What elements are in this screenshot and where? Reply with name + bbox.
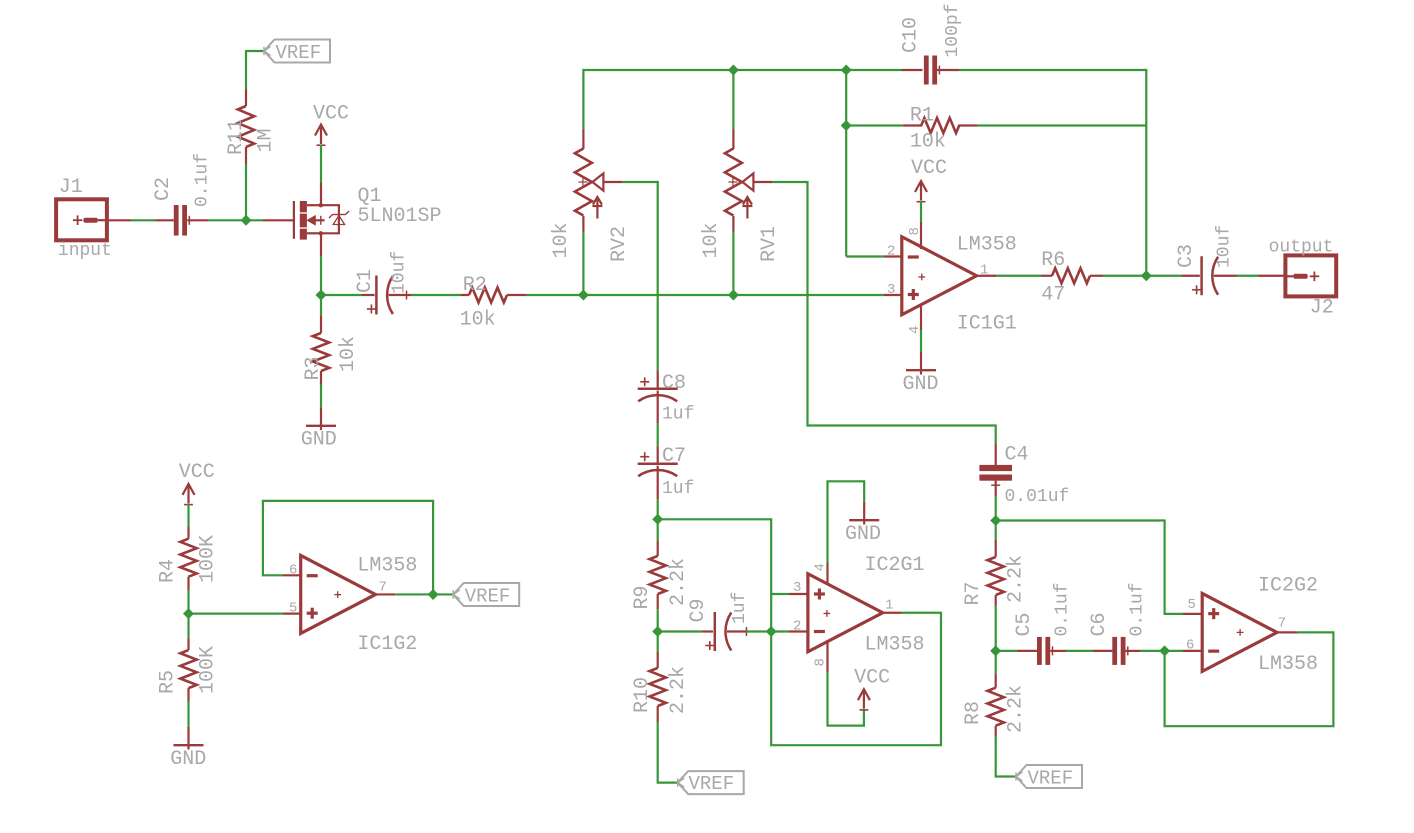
label C2 <box>152 177 175 201</box>
pin R5 top <box>187 639 189 651</box>
resistor R11 <box>238 106 254 147</box>
pin number 3 <box>887 282 895 298</box>
label 100K R4 <box>197 535 220 583</box>
flag VREF left <box>453 583 519 606</box>
pin RV1 top <box>732 129 734 149</box>
pin R7 bottom <box>995 595 997 606</box>
svg-text:J1: J1 <box>59 176 83 199</box>
ground GND R3 <box>306 426 336 430</box>
label 0.1uf C6 <box>1128 582 1148 636</box>
label R5 <box>157 670 180 694</box>
svg-text:C1: C1 <box>354 269 377 293</box>
svg-text:LM358: LM358 <box>357 554 417 577</box>
pin R3 top <box>320 315 322 333</box>
svg-text:2.2k: 2.2k <box>1005 685 1028 733</box>
label LM358 IC2G1 <box>865 634 925 657</box>
label R2 <box>463 274 487 297</box>
svg-text:LM358: LM358 <box>957 234 1017 257</box>
label 1M <box>255 128 278 152</box>
wire pin1 to R6 <box>996 275 1041 277</box>
wire node to C5 <box>996 650 1018 652</box>
pin C5 left <box>1018 650 1038 652</box>
capacitor C8 <box>638 377 678 401</box>
svg-text:IC2G2: IC2G2 <box>1258 575 1318 598</box>
pin number 5 IC1G2 <box>289 601 297 617</box>
pin R6 left <box>1041 275 1052 277</box>
junction C6 pin6 node <box>1160 646 1170 656</box>
pin C2 right <box>187 219 208 221</box>
pin J2 <box>1258 275 1286 277</box>
svg-text:VREF: VREF <box>465 586 511 608</box>
label output <box>1269 238 1334 258</box>
pin number 7 IC1G2 <box>379 580 387 596</box>
label 2.2k R10 <box>667 666 690 714</box>
wire node to IC2G1 pin3 <box>658 519 772 631</box>
wire VCC to pin8 <box>920 201 922 222</box>
pin C3 right <box>1214 275 1237 277</box>
svg-text:1uf: 1uf <box>662 479 694 499</box>
wire RV1 top <box>732 70 734 129</box>
pin C6 right <box>1126 650 1141 652</box>
pin R1 left <box>903 124 922 126</box>
label R3 <box>302 356 325 380</box>
pin C2 left <box>155 219 174 221</box>
label VREF left <box>465 586 511 608</box>
wire node to pin5 <box>189 612 284 614</box>
svg-text:0.1uf: 0.1uf <box>1053 582 1073 636</box>
svg-text:47: 47 <box>1041 284 1065 307</box>
svg-text:R6: R6 <box>1041 249 1065 272</box>
label 1uf C8 <box>662 405 694 425</box>
wire R5 to GND <box>187 701 189 727</box>
pin R4 top <box>187 527 189 539</box>
label 1uf C7 <box>662 479 694 499</box>
svg-text:R5: R5 <box>157 670 180 694</box>
transistor Q1 5LN01SP <box>294 201 349 240</box>
wire C8 to C7 <box>657 423 659 446</box>
wire R8 to VREF <box>996 737 1016 777</box>
label LM358 IC1G1 <box>957 234 1017 257</box>
pin R9 top <box>657 541 659 556</box>
label LM358 IC2G2 <box>1258 653 1318 676</box>
op-amp IC1G1 LM358 <box>902 237 977 315</box>
svg-text:VCC: VCC <box>854 667 890 690</box>
wire R2 to opamp pin3 <box>526 294 884 296</box>
pin GND R3 <box>320 408 322 426</box>
pin RV2 top <box>582 129 584 149</box>
capacitor C7 <box>638 452 678 476</box>
junction R4 R5 node <box>184 609 194 619</box>
label C5 <box>1013 612 1036 636</box>
wire IC2G2 feedback <box>1165 632 1334 726</box>
potentiometer RV1 <box>725 149 773 219</box>
label C4 <box>1005 444 1029 467</box>
svg-text:10k: 10k <box>700 222 723 258</box>
pin number 8 <box>907 227 923 235</box>
pin C7 bottom <box>657 466 659 500</box>
svg-text:100K: 100K <box>197 535 220 583</box>
pin Q1 gate <box>263 219 294 221</box>
capacitor C9 <box>705 612 731 651</box>
op-amp IC2G2 LM358 <box>1202 593 1277 671</box>
svg-text:R10: R10 <box>631 677 654 713</box>
label 10uf C3 <box>1215 225 1235 268</box>
wire pin4 to GND IC2G1 <box>828 481 865 563</box>
pin IC2G2 6 <box>1183 650 1202 652</box>
svg-text:C4: C4 <box>1005 444 1029 467</box>
pin RV1 bottom <box>732 216 734 232</box>
svg-text:GND: GND <box>845 523 881 546</box>
connector J2 (output) <box>1285 255 1336 296</box>
capacitor C1 <box>367 276 393 315</box>
label C3 <box>1175 244 1198 268</box>
junction RV2 bottom <box>579 290 589 300</box>
svg-text:R11: R11 <box>225 119 248 155</box>
junction RV1 bottom <box>729 290 739 300</box>
wire C1 to R2 <box>411 294 461 296</box>
svg-text:3: 3 <box>793 580 801 596</box>
wire R3 to GND <box>320 385 322 408</box>
label 10k RV2 <box>550 222 573 258</box>
svg-text:1M: 1M <box>255 128 278 152</box>
capacitor C5 <box>1037 637 1053 665</box>
pin C4 top <box>995 443 997 465</box>
label GND R3 <box>301 429 337 452</box>
pin IC1G2 6 <box>283 574 301 576</box>
pin C10 right <box>937 69 959 71</box>
pin IC1G1 1 <box>977 275 996 277</box>
svg-text:100pf: 100pf <box>943 3 963 57</box>
wire IC1G2 feedback <box>263 501 433 595</box>
capacitor C6 <box>1112 637 1128 665</box>
svg-text:RV2: RV2 <box>608 226 631 262</box>
label VREF middle <box>689 773 735 795</box>
pin C5 right <box>1050 650 1066 652</box>
resistor R7 <box>988 557 1004 595</box>
wire C5 to C6 <box>1066 650 1093 652</box>
capacitor C4 <box>979 465 1012 485</box>
resistor R4 <box>180 539 196 577</box>
wire main node to C1 <box>321 294 362 296</box>
pin IC2G1 4 <box>826 563 828 585</box>
pin R2 left <box>461 294 469 296</box>
label R8 <box>962 701 985 725</box>
wire IC2G1 feedback <box>771 613 941 745</box>
wire R4 to node <box>187 590 189 614</box>
pin Q1 drain <box>320 183 322 205</box>
wire pin2 branch vertical <box>845 70 847 257</box>
wire source node to R3 <box>320 295 322 315</box>
label GND left <box>170 748 206 771</box>
pin IC2G2 5 <box>1183 613 1202 615</box>
pin C1 right <box>389 291 411 300</box>
pin C9 left <box>702 630 713 632</box>
svg-text:C5: C5 <box>1013 612 1036 636</box>
label R10 <box>631 677 654 713</box>
label VCC top <box>313 103 349 126</box>
junction C7 R9 node <box>653 515 663 525</box>
pin number 8 IC2G1 <box>813 658 829 666</box>
svg-text:LM358: LM358 <box>1258 653 1318 676</box>
label RV2 <box>608 226 631 262</box>
svg-text:7: 7 <box>379 580 387 596</box>
svg-text:100K: 100K <box>197 646 220 694</box>
wire R10 to VREF <box>658 722 678 783</box>
label input <box>58 241 112 261</box>
pin number 6 IC1G2 <box>289 563 297 579</box>
svg-text:RV1: RV1 <box>758 226 781 262</box>
wire to IC1G1 pin2 <box>846 255 884 257</box>
pin R4 bottom <box>187 577 189 590</box>
svg-text:2: 2 <box>887 244 895 260</box>
junction R1 left <box>841 121 851 131</box>
svg-text:10k: 10k <box>337 336 360 372</box>
label GND IC1G1 <box>903 373 939 396</box>
resistor R10 <box>650 668 666 706</box>
pin GND IC2G1 <box>863 502 865 520</box>
pin number 4 IC2G1 <box>813 563 829 571</box>
pin R10 bottom <box>657 706 659 722</box>
svg-text:1uf: 1uf <box>662 405 694 425</box>
svg-text:C6: C6 <box>1088 612 1111 636</box>
svg-text:VCC: VCC <box>313 103 349 126</box>
wire R1 right <box>977 124 1146 126</box>
svg-text:IC1G1: IC1G1 <box>957 313 1017 336</box>
pin C8 top <box>657 370 659 389</box>
junction source node <box>316 290 326 300</box>
svg-text:8: 8 <box>813 658 829 666</box>
svg-text:0.01uf: 0.01uf <box>1005 487 1070 507</box>
junction R7 C5 node <box>991 646 1001 656</box>
label 0.1uf <box>193 153 213 207</box>
label VCC IC2G1 <box>854 667 890 690</box>
label R11 <box>225 119 248 155</box>
pin number 7 IC2G2 <box>1278 616 1286 632</box>
svg-text:R4: R4 <box>157 559 180 583</box>
pin GND left <box>187 727 189 745</box>
svg-text:C3: C3 <box>1175 244 1198 268</box>
label 10k RV1 <box>700 222 723 258</box>
svg-text:VCC: VCC <box>911 157 947 180</box>
label C9 <box>687 598 710 622</box>
label 100K R5 <box>197 646 220 694</box>
pin R5 bottom <box>187 688 189 701</box>
svg-text:output: output <box>1269 238 1334 258</box>
wire C6 to node <box>1140 650 1165 652</box>
junction top net pin2 branch <box>841 65 851 75</box>
pin number 2 <box>887 244 895 260</box>
pin IC2G1 2 <box>789 630 808 632</box>
pin R8 bottom <box>995 726 997 737</box>
pin IC2G2 7 <box>1277 631 1297 633</box>
wire C3 to J2 <box>1237 275 1258 277</box>
wire C10 to right vertical <box>959 70 1146 276</box>
pin RV2 bottom <box>582 216 584 232</box>
pin R6 right <box>1090 275 1103 277</box>
svg-text:1: 1 <box>885 598 893 614</box>
label IC1G2 <box>357 633 417 656</box>
svg-text:VREF: VREF <box>1028 768 1074 790</box>
svg-text:3: 3 <box>887 282 895 298</box>
pin Q1 source <box>320 233 322 256</box>
junction gate node <box>241 216 251 226</box>
svg-text:GND: GND <box>301 429 337 452</box>
wire C9 right to node <box>746 630 771 632</box>
label 10k R2 <box>460 309 496 332</box>
svg-text:10k: 10k <box>910 131 946 154</box>
wire R9 to C9 node <box>657 609 659 631</box>
svg-text:VREF: VREF <box>276 42 322 64</box>
resistor R8 <box>988 688 1004 726</box>
junction RV1 top <box>729 65 739 75</box>
wire Q1 source to main node <box>320 256 322 295</box>
label 2.2k R9 <box>667 558 690 606</box>
op-amp IC2G1 LM358 <box>808 574 883 652</box>
pin IC1G2 5 <box>283 612 301 614</box>
label 100pf <box>943 3 963 57</box>
resistor R5 <box>180 650 196 688</box>
svg-text:R1: R1 <box>910 105 934 128</box>
label 5LN01SP <box>358 205 442 228</box>
label 2.2k R8 <box>1005 685 1028 733</box>
capacitor C10 <box>924 56 940 85</box>
op-amp IC1G2 LM358 <box>301 555 376 633</box>
connector J1 (input) <box>56 199 107 240</box>
label J2 <box>1310 297 1334 320</box>
pin R11 top <box>245 90 247 107</box>
junction C4 R7 node <box>991 516 1001 526</box>
label C8 <box>662 372 686 395</box>
wire VCC to R4 <box>187 504 189 527</box>
label R6 <box>1041 249 1065 272</box>
pin R2 right <box>507 294 526 296</box>
pin IC1G1 8 <box>920 222 922 249</box>
wire node to R7 <box>995 521 997 540</box>
label Q1 <box>358 185 382 208</box>
label 2.2k R7 <box>1005 555 1028 603</box>
resistor R2 <box>469 288 507 303</box>
pin C9 right <box>727 627 747 636</box>
svg-text:C10: C10 <box>900 17 923 53</box>
label VREF right <box>1028 768 1074 790</box>
pin IC1G2 7 <box>376 593 395 595</box>
wire VREF to R11 <box>246 51 264 90</box>
svg-text:10k: 10k <box>460 309 496 332</box>
wire R7 to node <box>995 606 997 651</box>
label 47 <box>1041 284 1065 307</box>
capacitor C2 <box>174 205 190 236</box>
pin number 2 IC2G1 <box>793 619 801 635</box>
label IC2G1 <box>865 554 925 577</box>
label R1 <box>910 105 934 128</box>
svg-text:VREF: VREF <box>689 773 735 795</box>
label R4 <box>157 559 180 583</box>
pin R8 top <box>995 674 997 688</box>
label C10 <box>900 17 923 53</box>
pin IC2G1 3 <box>789 593 808 595</box>
label C7 <box>662 445 686 468</box>
label J1 <box>59 176 83 199</box>
svg-text:10uf: 10uf <box>1215 225 1235 268</box>
pin GND IC1G1 <box>920 352 922 370</box>
svg-text:4: 4 <box>813 563 829 571</box>
label VCC IC1G1 <box>911 157 947 180</box>
svg-text:LM358: LM358 <box>865 634 925 657</box>
wire C7 to node <box>657 499 659 519</box>
pin IC1G1 3 <box>884 294 902 296</box>
wire RV1 bottom <box>732 232 734 295</box>
pin R11 bottom <box>245 147 247 164</box>
junction C9 right node <box>766 627 776 637</box>
svg-text:1uf: 1uf <box>730 592 750 624</box>
label GND IC2G1 <box>845 523 881 546</box>
capacitor C3 <box>1192 256 1218 295</box>
svg-text:10uf: 10uf <box>390 251 410 294</box>
label VREF top <box>276 42 322 64</box>
pin number 4 <box>907 326 923 334</box>
label 0.01uf <box>1005 487 1070 507</box>
svg-text:0.1uf: 0.1uf <box>1128 582 1148 636</box>
wire C9 left <box>658 630 702 632</box>
svg-text:input: input <box>58 241 112 261</box>
power VCC top <box>315 125 327 146</box>
svg-text:R9: R9 <box>631 585 654 609</box>
pin R1 right <box>958 124 977 126</box>
power VCC IC1G1 <box>915 181 927 202</box>
pin C7 top <box>657 446 659 463</box>
svg-text:5: 5 <box>1188 597 1196 613</box>
wire C4 to node <box>995 496 997 521</box>
wire RV2 top to top net <box>583 70 902 129</box>
wire R1 left <box>846 124 903 126</box>
wire pin4 to GND <box>920 330 922 352</box>
svg-text:2.2k: 2.2k <box>667 666 690 714</box>
ground GND left <box>174 745 204 749</box>
label 1uf C9 <box>730 592 750 624</box>
label LM358 IC1G2 <box>357 554 417 577</box>
label VCC left <box>179 461 215 484</box>
pin R3 bottom <box>320 371 322 385</box>
potentiometer RV2 <box>575 149 623 219</box>
label R9 <box>631 585 654 609</box>
svg-text:GND: GND <box>903 373 939 396</box>
svg-text:IC1G2: IC1G2 <box>357 633 417 656</box>
label R7 <box>962 581 985 605</box>
wire node to R8 <box>995 651 997 674</box>
pin IC1G1 4 <box>920 306 922 330</box>
wire VCC to Q1 drain <box>320 145 322 184</box>
pin C3 left <box>1182 275 1200 277</box>
svg-text:6: 6 <box>1186 638 1194 654</box>
wire branch to pin3 <box>771 593 789 595</box>
svg-text:C8: C8 <box>662 372 686 395</box>
wire RV2 wiper to C8 chain <box>622 182 657 370</box>
svg-text:0.1uf: 0.1uf <box>193 153 213 207</box>
pin C8 bottom <box>657 391 659 424</box>
svg-text:10k: 10k <box>550 222 573 258</box>
wire pin8 to VCC IC2G1 <box>828 672 864 726</box>
wire node to IC2G2 pin5 <box>996 521 1183 614</box>
wire pin7 to VREF <box>395 593 453 595</box>
pin C10 left <box>902 69 923 71</box>
wire node to R9 <box>657 519 659 541</box>
flag VREF right <box>1016 765 1082 788</box>
svg-text:R7: R7 <box>962 581 985 605</box>
junction IC1G2 output <box>428 590 438 600</box>
label 10k R3 <box>337 336 360 372</box>
label 0.1uf C5 <box>1053 582 1073 636</box>
label C1 <box>354 269 377 293</box>
